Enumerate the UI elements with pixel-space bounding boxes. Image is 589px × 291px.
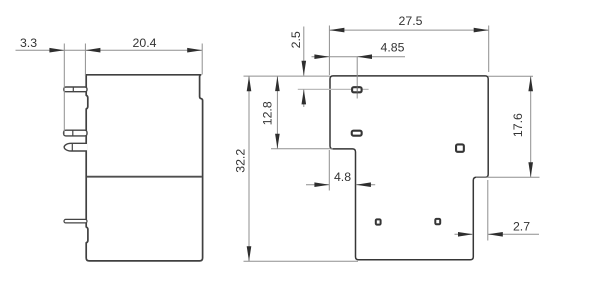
svg-text:20.4: 20.4: [133, 36, 157, 50]
arrow 12.8 up: [275, 76, 280, 91]
extension line body left: [84, 44, 86, 77]
dim line 4.85: [312, 56, 406, 58]
extension line top edge (right side): [488, 75, 533, 77]
dim line 2.5 lower: [303, 89, 305, 107]
pin 2 pad: [352, 131, 362, 136]
arrow 27.5 left: [329, 28, 344, 33]
arrow 17.6 down: [528, 162, 533, 177]
extension line pin tips: [63, 44, 65, 136]
arrow 32.2 down: [247, 246, 252, 261]
extension line bottom edge: [244, 260, 359, 262]
arrow 2.7 right (outside): [488, 232, 503, 237]
dim line 2.7 left tail: [455, 233, 474, 235]
arrow 27.5 right: [474, 28, 489, 33]
relay body outline (side view): [86, 75, 202, 261]
dim line 2.7 right tail: [488, 233, 539, 235]
pin 1 centerline over pad: [356, 87, 358, 93]
extension line outline left (27.5/4.85): [328, 26, 330, 76]
dim line 32.2: [248, 76, 250, 261]
arrow 2.7 left (outside): [458, 232, 473, 237]
pin 3 pad: [456, 144, 464, 151]
arrow 4.85 left (outside): [314, 54, 329, 59]
pad 5 (small): [435, 219, 440, 224]
arrow 12.8 down: [275, 134, 280, 149]
dim line 4.8 right tail: [356, 184, 375, 186]
pin A (top coil pin, side view): [64, 87, 87, 92]
svg-text:4.8: 4.8: [334, 170, 351, 184]
dim line 17.6: [530, 76, 532, 177]
svg-text:2.5: 2.5: [289, 31, 303, 48]
pin 1 centerline horizontal: [298, 88, 369, 90]
svg-text:4.85: 4.85: [381, 41, 405, 55]
svg-text:3.3: 3.3: [20, 36, 37, 50]
footprint outline (bottom view): [330, 76, 488, 260]
svg-text:32.2: 32.2: [233, 149, 247, 173]
svg-text:27.5: 27.5: [399, 14, 423, 28]
svg-text:17.6: 17.6: [511, 113, 525, 137]
pin 1 pad: [352, 87, 362, 92]
dim line 4.8 left tail: [306, 184, 329, 186]
pad 4 (small): [376, 219, 381, 224]
arrow 2.5 down (outside above): [302, 61, 307, 76]
arrow at body left edge (3.3 right / 20.4 left): [85, 48, 100, 53]
pin B (side view): [64, 130, 87, 136]
arrow at pin tip extension (3.3 left): [49, 48, 64, 53]
dim line 3.3 / 20.4: [16, 49, 203, 51]
extension line 4.8 left: [328, 150, 330, 191]
arrow 4.8 left (outside): [314, 182, 329, 187]
extension line body right: [201, 44, 203, 75]
arrow 2.5 up (outside below): [302, 89, 307, 104]
extension line left step: [271, 148, 333, 150]
extension line outline right (27.5): [488, 26, 490, 73]
arrow 17.6 up: [528, 76, 533, 91]
extension line top edge (left side): [244, 75, 331, 77]
svg-text:12.8: 12.8: [261, 101, 275, 125]
extension line right step: [476, 176, 540, 178]
case parting line (middle): [87, 176, 202, 178]
dim line 2.5 upper: [303, 27, 305, 76]
arrow at body right edge (20.4 right): [187, 48, 202, 53]
dim line 12.8: [276, 76, 278, 149]
extension line 2.7 right: [487, 180, 489, 241]
dim line 27.5: [329, 29, 488, 31]
pin D (bottom pin, side view): [64, 219, 87, 223]
svg-text:2.7: 2.7: [513, 220, 530, 234]
arrow 4.85 right (outside): [357, 54, 372, 59]
arrow 32.2 up: [247, 76, 252, 91]
arrow 4.8 right (outside): [356, 182, 371, 187]
pin 1 centerline vertical: [356, 57, 358, 99]
pin C (bullet-nose pin, side view): [64, 143, 87, 151]
